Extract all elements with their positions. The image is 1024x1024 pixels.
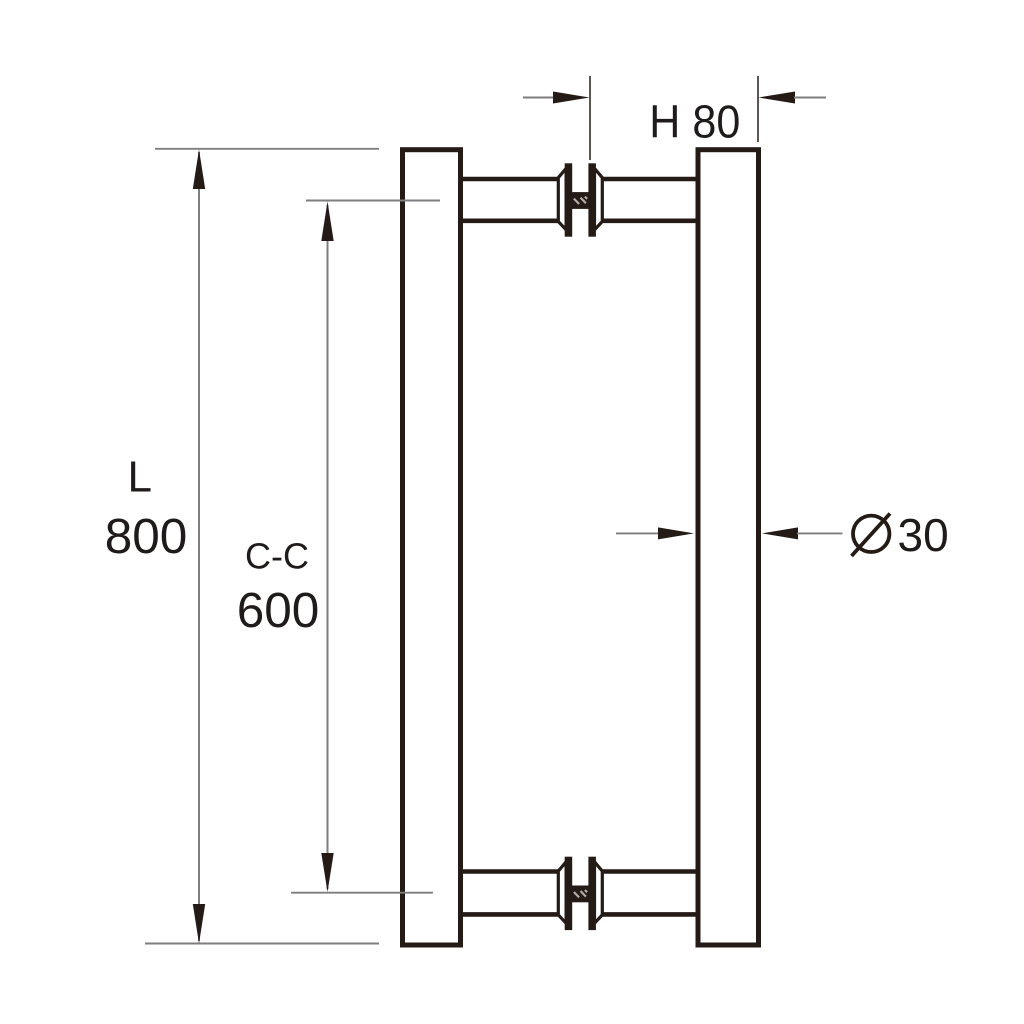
right handle bar [698,150,759,945]
label 800 [105,509,188,564]
dimension C-C: top extension line [306,200,440,202]
svg-text:L: L [128,452,152,501]
dimension C-C: bottom arrowhead [321,853,333,892]
top rod (horizontal tube between bars) [455,179,702,221]
dimension C-C: top arrowhead [321,202,333,242]
dimension L: bottom extension line [145,943,379,945]
svg-text:800: 800 [105,509,188,564]
dimension H: left arrowhead [553,92,590,104]
dimension L: top arrowhead [193,150,205,190]
dimension diameter: right arrow tail line [797,532,843,534]
diameter symbol [852,514,891,557]
label 600 [237,583,320,638]
svg-text:H 80: H 80 [649,96,740,148]
dimension diameter: left arrow tail line [616,532,661,534]
dimension L: vertical dimension line [198,152,200,941]
bottom rod (horizontal tube between bars) [455,872,702,915]
label H 80 [649,96,740,148]
dimension H: left vertical extension line [589,76,591,160]
svg-text:30: 30 [898,509,949,561]
label 30 [898,509,949,561]
dimension C-C: vertical dimension line [327,205,329,889]
label L [128,452,152,501]
dimension H: right arrowhead [759,92,796,104]
svg-text:600: 600 [237,583,320,638]
dimension diameter: right arrowhead [762,527,798,539]
dimension C-C: bottom extension line [291,892,433,894]
bottom glass clamp washer [558,857,602,930]
dimension L: bottom arrowhead [193,904,205,944]
dimension H: right arrow tail line [794,97,826,99]
dimension L: top extension line [155,148,379,150]
top glass clamp washer [558,163,602,236]
dimension H: right vertical extension line [757,76,759,142]
left handle bar [403,150,461,945]
dimension H: left arrow tail line [523,97,556,99]
dimension diameter: left arrowhead [658,527,694,539]
label C-C [245,536,309,577]
svg-text:C-C: C-C [245,536,309,577]
